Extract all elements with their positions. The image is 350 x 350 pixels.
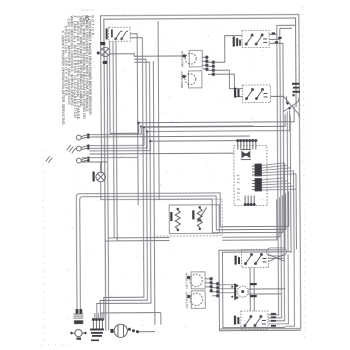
surface element RF housing [188,71,202,88]
scan speckle [64,12,303,333]
bottom left riser wires [95,313,102,320]
LF switch contacts [244,315,266,326]
wire band P3a [82,156,138,158]
wire RR to switch box [214,36,242,63]
control bottom comb [244,196,255,206]
notice text block (rotated) [61,15,96,125]
right element terminal column 2 [208,61,215,76]
convection fan motor [114,324,127,337]
RF terminal dot [182,75,185,78]
wire band R1 [109,40,294,133]
outer border wire L1 [101,15,301,330]
connector plug CN1 [252,164,262,176]
wire band C2 [80,193,287,309]
RR switch label [233,37,241,47]
door lock bulb [72,329,85,336]
oven lamp 2 [237,286,248,297]
bottom box mid riser pair [250,268,254,312]
LR terminal dot [187,276,190,279]
RR infinite switch dashed box [242,30,269,47]
wire band D1 [108,197,280,238]
wire band R3 [89,110,290,148]
wire RF step [215,70,243,89]
oven element inner box [169,205,219,234]
right element terminal column 1 [202,56,208,71]
bottom cluster comb [92,318,103,329]
wire band C1 [76,191,289,309]
terminal P2 [76,144,89,151]
motor terminal dots [110,328,139,334]
svg-text:LEFT REAR: LEFT REAR [185,272,189,289]
bake sensor arrow [198,207,207,221]
bottom cluster text marks [90,328,104,341]
RR switch contacts [245,34,267,45]
oven lamp 2 bracket [231,284,236,300]
lamp2 BK label bottom [250,295,257,297]
RF infinite switch dashed box [242,85,270,103]
terminal P3 [76,156,89,163]
surface element RR housing [189,50,202,67]
bottom section inner rail [222,252,291,328]
CN1 fan wires [261,163,296,176]
lamp2 wires [248,289,285,294]
wire from DB1 to mid vertical [102,38,144,320]
LF label [185,291,189,308]
top right corner wires [267,25,298,321]
LR switch right X wires [268,254,284,261]
RF switch contacts [245,88,267,99]
connector plug CN2 [252,178,262,191]
surface element RR [185,53,196,64]
right junction X wires [271,96,300,117]
mid vertical wire B [95,62,151,319]
inner border wire L2 [104,18,298,330]
wire band D2 [105,199,277,241]
RR terminal dot [183,54,186,57]
surface element LF [190,293,202,305]
wire band R4 [89,135,249,138]
bottom section outer box [219,250,301,331]
wire from DB1 down-right bend [130,34,138,206]
wire band B1 [89,152,233,155]
element-to-lamp wires [219,285,234,293]
bottom box line [100,313,161,325]
door lock bulb dots [70,332,86,340]
mid vertical wire C (to motor) [136,61,155,332]
surface element LF housing [191,291,205,309]
DB1 switch contacts [115,31,128,39]
surface element LR housing [191,272,205,289]
top-left wire drop [158,21,159,200]
broil coil terminals [170,208,179,231]
oven lamp 2 filament dot [236,284,244,298]
right wire bundle verticals [284,111,296,254]
left element terminal column 2 [212,282,219,297]
wire band P1a [89,126,254,135]
LR infinite switch dashed box [241,249,268,267]
broil element coil [175,210,180,229]
RR label [180,50,184,67]
right mini junction text [292,83,300,93]
BK label between elements [202,67,206,71]
right junction dots [286,94,294,109]
strain relief marks [46,145,76,163]
LF terminal dot [187,295,190,298]
door latch oval [266,248,286,256]
RF label [180,71,184,88]
wire lamp to RR element [110,53,186,56]
left long vertical pair [113,41,169,241]
bottom left wire pair end blobs [76,309,83,314]
LF infinite switch dashed box [241,311,268,330]
bake coil terminals [192,206,201,230]
terminal P1 [76,133,89,140]
wire band P3b (P3 row) [82,161,108,163]
page edge dotted marks [39,7,305,346]
svg-text:BK: BK [202,67,206,71]
indicator lamp [92,162,105,193]
bottom right BK labels [271,313,276,327]
door switch dashed box DB1 [109,27,131,41]
surface element RF [185,74,196,85]
LR switch label [234,256,240,265]
surface element LR [190,274,202,286]
left frame vertical wire [107,56,109,330]
svg-text:RIGHT REAR: RIGHT REAR [180,50,184,67]
band jog junction dots [138,122,152,143]
bake element coil [197,208,202,227]
LR label [185,272,189,289]
door lock connector stack [73,314,83,324]
electronic control dashed box [234,145,267,205]
lamp2 BK label top [250,283,257,285]
mid vertical wire A [99,59,148,319]
sheet number 6 [81,10,94,23]
LF switch label [234,316,240,325]
svg-text:LEFT FRONT: LEFT FRONT [185,291,189,308]
control board fan symbol [241,150,251,160]
DB1 label text [106,28,113,39]
harness comb under clock box [237,139,257,149]
control board vertical label [236,174,240,200]
svg-text:RIGHT FRONT: RIGHT FRONT [180,71,184,88]
oven element outer dashed box [154,199,222,236]
wire band R2 [89,114,285,145]
CN2 fan wires [262,178,297,190]
RF switch label [234,88,240,98]
oven lamp terminal dot [97,42,108,64]
wire RF step2 [215,74,243,97]
bottom right nested corners [268,254,295,326]
oven lamp circle [101,47,110,56]
svg-text:5. VERIFY PROPER OPERATION AFT: 5. VERIFY PROPER OPERATION AFTER SERVICI… [61,31,66,126]
wire band R5 [89,141,246,151]
wire band C3 [101,192,283,233]
left element terminal column 1 [206,277,213,292]
SW1 side wire labels [272,32,282,43]
LR switch contacts [244,253,266,264]
